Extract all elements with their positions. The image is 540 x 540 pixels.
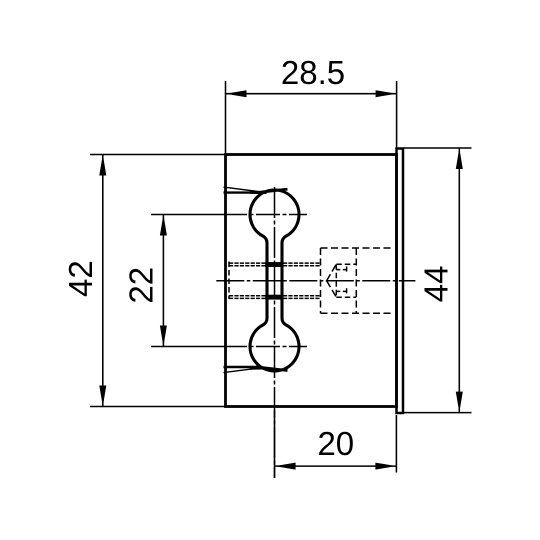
svg-text:28.5: 28.5 xyxy=(281,54,345,91)
svg-text:44: 44 xyxy=(418,266,455,303)
svg-text:42: 42 xyxy=(62,260,99,297)
svg-text:20: 20 xyxy=(317,425,354,462)
svg-text:22: 22 xyxy=(123,267,160,304)
